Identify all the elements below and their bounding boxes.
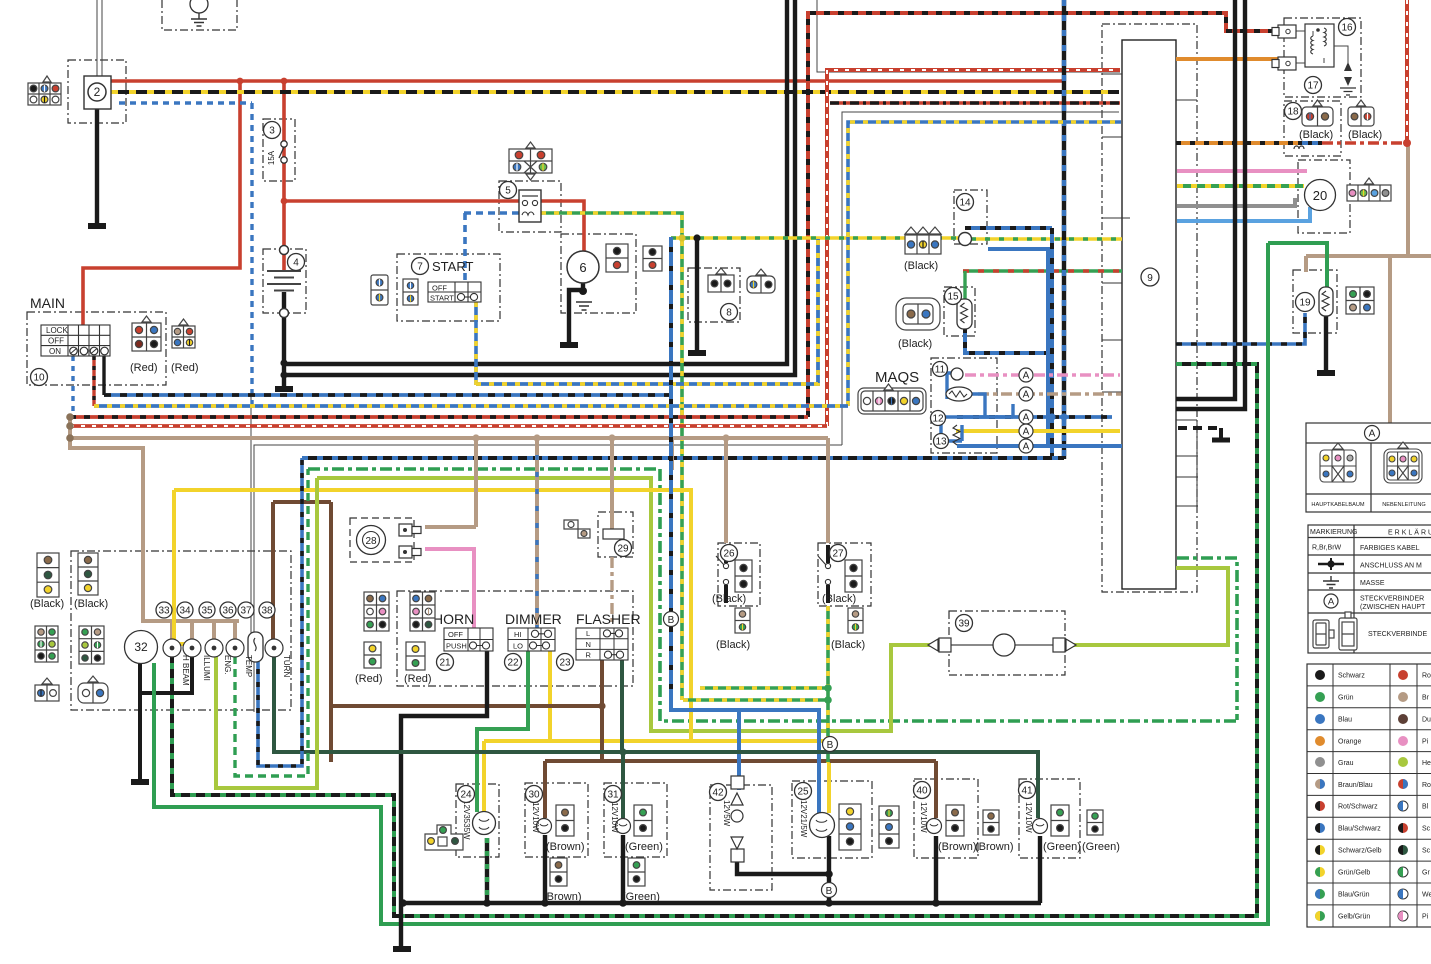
svg-text:R,Br,BrW: R,Br,BrW [1312,545,1342,552]
svg-text:MAIN: MAIN [30,295,65,311]
svg-text:27: 27 [832,549,844,560]
svg-text:A: A [1023,427,1030,438]
svg-text:START: START [430,294,454,303]
svg-text:(Black): (Black) [831,639,865,651]
svg-text:Schwarz/Gelb: Schwarz/Gelb [1338,848,1382,855]
svg-text:HI: HI [514,630,522,639]
svg-text:HORN: HORN [433,611,474,627]
svg-text:20: 20 [1313,188,1327,203]
svg-text:25: 25 [797,787,809,798]
svg-text:We: We [1422,892,1431,899]
svg-text:5: 5 [505,186,511,197]
svg-text:N: N [586,640,591,649]
svg-text:(Black): (Black) [898,338,932,350]
svg-text:31: 31 [607,790,619,801]
svg-text:37: 37 [240,606,252,617]
svg-text:MARKIERUNG: MARKIERUNG [1310,529,1357,536]
svg-text:MAQS: MAQS [875,369,919,386]
svg-text:PUSH: PUSH [446,642,467,651]
svg-text:R: R [586,651,592,660]
svg-text:Ro: Ro [1422,673,1431,680]
svg-text:33: 33 [158,606,170,617]
svg-text:34: 34 [179,606,191,617]
svg-text:36: 36 [222,606,234,617]
svg-text:Blau: Blau [1338,717,1352,724]
svg-text:H BEAM: H BEAM [181,655,190,686]
svg-text:A: A [1023,371,1030,382]
svg-text:7: 7 [417,262,423,273]
svg-text:MASSE: MASSE [1360,580,1385,587]
svg-text:B: B [668,615,675,626]
svg-text:15A: 15A [267,150,276,165]
svg-text:16: 16 [1341,23,1353,34]
svg-text:4: 4 [293,258,299,269]
svg-text:26: 26 [723,549,735,560]
svg-text:Grün/Gelb: Grün/Gelb [1338,870,1370,877]
svg-text:23: 23 [559,658,571,669]
svg-text:19: 19 [1299,298,1311,309]
svg-text:(Red): (Red) [171,362,199,374]
svg-text:A: A [1369,429,1376,440]
svg-text:Pi: Pi [1422,739,1429,746]
svg-text:(Brown): (Brown) [543,891,582,903]
svg-text:8: 8 [726,308,732,319]
svg-text:Grün: Grün [1338,695,1354,702]
svg-text:START: START [432,259,473,274]
svg-text:Blau/Schwarz: Blau/Schwarz [1338,826,1381,833]
svg-text:24: 24 [460,790,472,801]
svg-text:A: A [1023,390,1030,401]
svg-text:Sc: Sc [1422,848,1431,855]
svg-text:(Green): (Green) [1043,841,1081,853]
svg-text:17: 17 [1307,81,1319,92]
svg-text:12V10W: 12V10W [531,802,540,833]
svg-text:STECKVERBINDER: STECKVERBINDER [1360,596,1424,603]
svg-text:11: 11 [935,365,946,376]
svg-text:15: 15 [947,292,959,303]
svg-text:Gr: Gr [1422,870,1430,877]
svg-text:Du: Du [1422,717,1431,724]
svg-text:Br: Br [1422,695,1430,702]
svg-text:40: 40 [916,786,928,797]
svg-text:FARBIGES KABEL: FARBIGES KABEL [1360,545,1420,552]
svg-text:3: 3 [269,126,275,137]
svg-text:Bl: Bl [1422,804,1429,811]
svg-text:6: 6 [579,260,586,275]
svg-text:ANSCHLUSS AN M: ANSCHLUSS AN M [1360,563,1422,570]
svg-text:38: 38 [261,606,273,617]
svg-text:NEBENLEITUNG: NEBENLEITUNG [1382,502,1426,508]
svg-text:LOCK: LOCK [46,326,68,335]
svg-text:(Red): (Red) [355,673,383,685]
svg-text:Ro: Ro [1422,782,1431,789]
svg-text:35: 35 [201,606,213,617]
svg-text:(Green): (Green) [622,891,660,903]
svg-text:(Brown): (Brown) [546,841,585,853]
svg-text:Orange: Orange [1338,739,1361,746]
svg-text:A: A [1328,597,1335,608]
svg-text:12V10W: 12V10W [919,802,928,833]
svg-text:12V21/5W: 12V21/5W [799,800,808,838]
svg-text:ERKLÄRU: ERKLÄRU [1388,529,1431,537]
svg-text:TURN: TURN [282,655,291,677]
svg-text:ILLUMI: ILLUMI [202,655,211,681]
svg-text:Sc: Sc [1422,826,1431,833]
svg-text:(Black): (Black) [716,639,750,651]
svg-text:OFF: OFF [432,284,447,293]
svg-text:FLASHER: FLASHER [576,611,641,627]
svg-text:2: 2 [94,85,101,99]
svg-text:STECKVERBINDE: STECKVERBINDE [1368,631,1427,638]
svg-text:9: 9 [1147,273,1153,284]
svg-text:41: 41 [1021,786,1033,797]
svg-text:Blau/Grün: Blau/Grün [1338,892,1370,899]
svg-text:Schwarz: Schwarz [1338,673,1365,680]
svg-text:(Brown): (Brown) [975,841,1014,853]
svg-text:DIMMER: DIMMER [505,611,562,627]
svg-text:OFF: OFF [448,630,463,639]
svg-text:12V10W: 12V10W [610,802,619,833]
svg-text:B: B [827,740,834,751]
svg-text:14: 14 [959,198,971,209]
svg-text:12: 12 [932,414,944,425]
svg-text:(Black): (Black) [822,593,856,605]
svg-text:39: 39 [958,619,970,630]
svg-text:(Black): (Black) [74,598,108,610]
svg-text:Pi: Pi [1422,914,1429,921]
svg-text:(Green): (Green) [1082,841,1120,853]
svg-text:(Black): (Black) [1299,129,1333,141]
svg-text:10: 10 [33,373,45,384]
svg-text:A: A [1023,442,1030,453]
svg-text:TEMP: TEMP [244,655,253,677]
svg-text:HAUPTKABELBAUM: HAUPTKABELBAUM [1311,502,1364,508]
svg-text:OFF: OFF [48,337,64,346]
svg-text:(Black): (Black) [30,598,64,610]
svg-text:18: 18 [1287,107,1299,118]
svg-text:Braun/Blau: Braun/Blau [1338,782,1373,789]
svg-text:Gelb/Grün: Gelb/Grün [1338,914,1370,921]
svg-text:30: 30 [528,790,540,801]
svg-text:22: 22 [507,658,519,669]
svg-text:L: L [586,629,590,638]
svg-text:B: B [826,886,833,897]
svg-text:(Black): (Black) [904,260,938,272]
svg-text:29: 29 [617,544,629,555]
svg-text:(Green): (Green) [625,841,663,853]
svg-text:13: 13 [935,437,947,448]
svg-text:12V5W: 12V5W [722,800,731,827]
svg-text:28: 28 [365,536,377,547]
svg-text:(Black): (Black) [712,593,746,605]
svg-text:(Brown): (Brown) [938,841,977,853]
svg-text:LO: LO [513,642,523,651]
svg-text:(ZWISCHEN HAUPT: (ZWISCHEN HAUPT [1360,604,1426,611]
svg-text:Rot/Schwarz: Rot/Schwarz [1338,804,1378,811]
svg-text:12V10W: 12V10W [1024,802,1033,833]
svg-text:42: 42 [712,788,724,799]
svg-text:(Red): (Red) [404,673,432,685]
svg-text:A: A [1023,413,1030,424]
svg-text:ENG.: ENG. [223,655,232,675]
svg-text:He: He [1422,760,1431,767]
svg-text:32: 32 [134,640,148,654]
svg-text:(Black): (Black) [1348,129,1382,141]
svg-text:Grau: Grau [1338,760,1354,767]
svg-text:(Red): (Red) [130,362,158,374]
svg-text:21: 21 [439,658,451,669]
svg-text:ON: ON [49,347,61,356]
